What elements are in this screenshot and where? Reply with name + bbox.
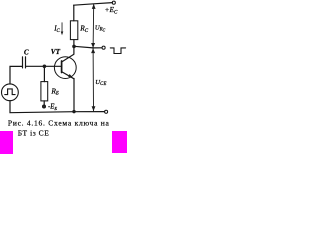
wire emitter to bottom rail — [73, 79, 75, 112]
wire RB to -EB terminal — [43, 101, 45, 105]
wire base node — [26, 65, 61, 67]
junction dot emitter node — [72, 110, 75, 113]
transistor base bar — [61, 61, 63, 73]
junction dot base node — [43, 65, 47, 69]
terminal bottom right — [105, 110, 108, 113]
junction dot collector node — [72, 45, 76, 49]
resistor RB — [41, 82, 48, 101]
capacitor C plates — [22, 57, 24, 68]
svg-text:C: C — [24, 49, 29, 56]
wire voltage annotation line upper (U_RC) — [92, 4, 95, 48]
svg-text:Рис. 4.16. Схема ключа на: Рис. 4.16. Схема ключа на — [8, 118, 110, 127]
arrowhead U annotation upper tap (down) — [91, 43, 95, 48]
svg-text:IC: IC — [53, 24, 60, 33]
wire voltage annotation line lower (U_CE) — [92, 48, 94, 111]
arrowhead emitter — [68, 74, 73, 78]
generator G1 circle — [2, 84, 19, 101]
wire RC to collector node — [73, 40, 75, 54]
wire collector node to tap — [74, 46, 93, 48]
transistor collector diagonal — [62, 54, 74, 62]
capacitor C left wire — [10, 66, 22, 84]
arrowhead U annotation lower tap (up) — [91, 48, 95, 53]
svg-text:URC: URC — [95, 24, 106, 32]
resistor RC — [70, 21, 77, 40]
svg-text:+EC: +EC — [105, 5, 119, 15]
wire generator to bottom rail — [10, 101, 105, 113]
wire collector supply drop — [73, 5, 75, 21]
wire top rail — [74, 3, 113, 6]
terminal -EB — [43, 105, 46, 108]
arrowhead U annotation bottom (down at rail) — [92, 106, 96, 111]
svg-text:UCE: UCE — [95, 79, 106, 87]
svg-text:RC: RC — [79, 23, 89, 33]
wire tap stub to output terminal — [93, 47, 102, 49]
svg-text:RБ: RБ — [50, 86, 59, 96]
arrowhead U annotation top (up at rail) — [92, 4, 96, 9]
terminal +EC — [112, 1, 115, 4]
terminal output — [102, 46, 105, 49]
transistor emitter diagonal — [62, 72, 74, 79]
arrowhead IC current (down) — [61, 32, 64, 36]
svg-text:БТ із СЕ: БТ із СЕ — [18, 129, 49, 138]
highlight block left — [0, 131, 13, 154]
output pulse waveform symbol — [110, 48, 125, 54]
svg-text:VT: VT — [51, 48, 61, 56]
wire IC arrow shaft — [61, 22, 64, 32]
generator pulse symbol — [5, 89, 15, 95]
transistor VT circle — [54, 57, 76, 79]
highlight block right — [112, 131, 127, 153]
svg-text:-EБ: -EБ — [48, 104, 57, 111]
wire RB top — [43, 66, 45, 81]
